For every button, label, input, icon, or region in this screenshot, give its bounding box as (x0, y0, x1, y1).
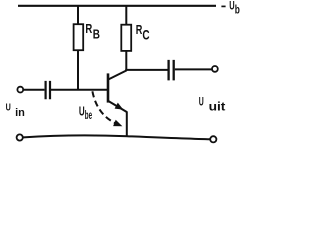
svg-text:U: U (199, 95, 204, 109)
svg-text:b: b (235, 5, 240, 17)
svg-text:U: U (6, 103, 11, 114)
svg-text:U: U (229, 1, 234, 13)
svg-text:C: C (142, 28, 149, 43)
svg-text:uit: uit (209, 99, 226, 113)
svg-text:be: be (85, 109, 93, 122)
svg-text:B: B (93, 27, 100, 42)
svg-text:in: in (15, 107, 25, 119)
svg-text:R: R (85, 21, 92, 36)
